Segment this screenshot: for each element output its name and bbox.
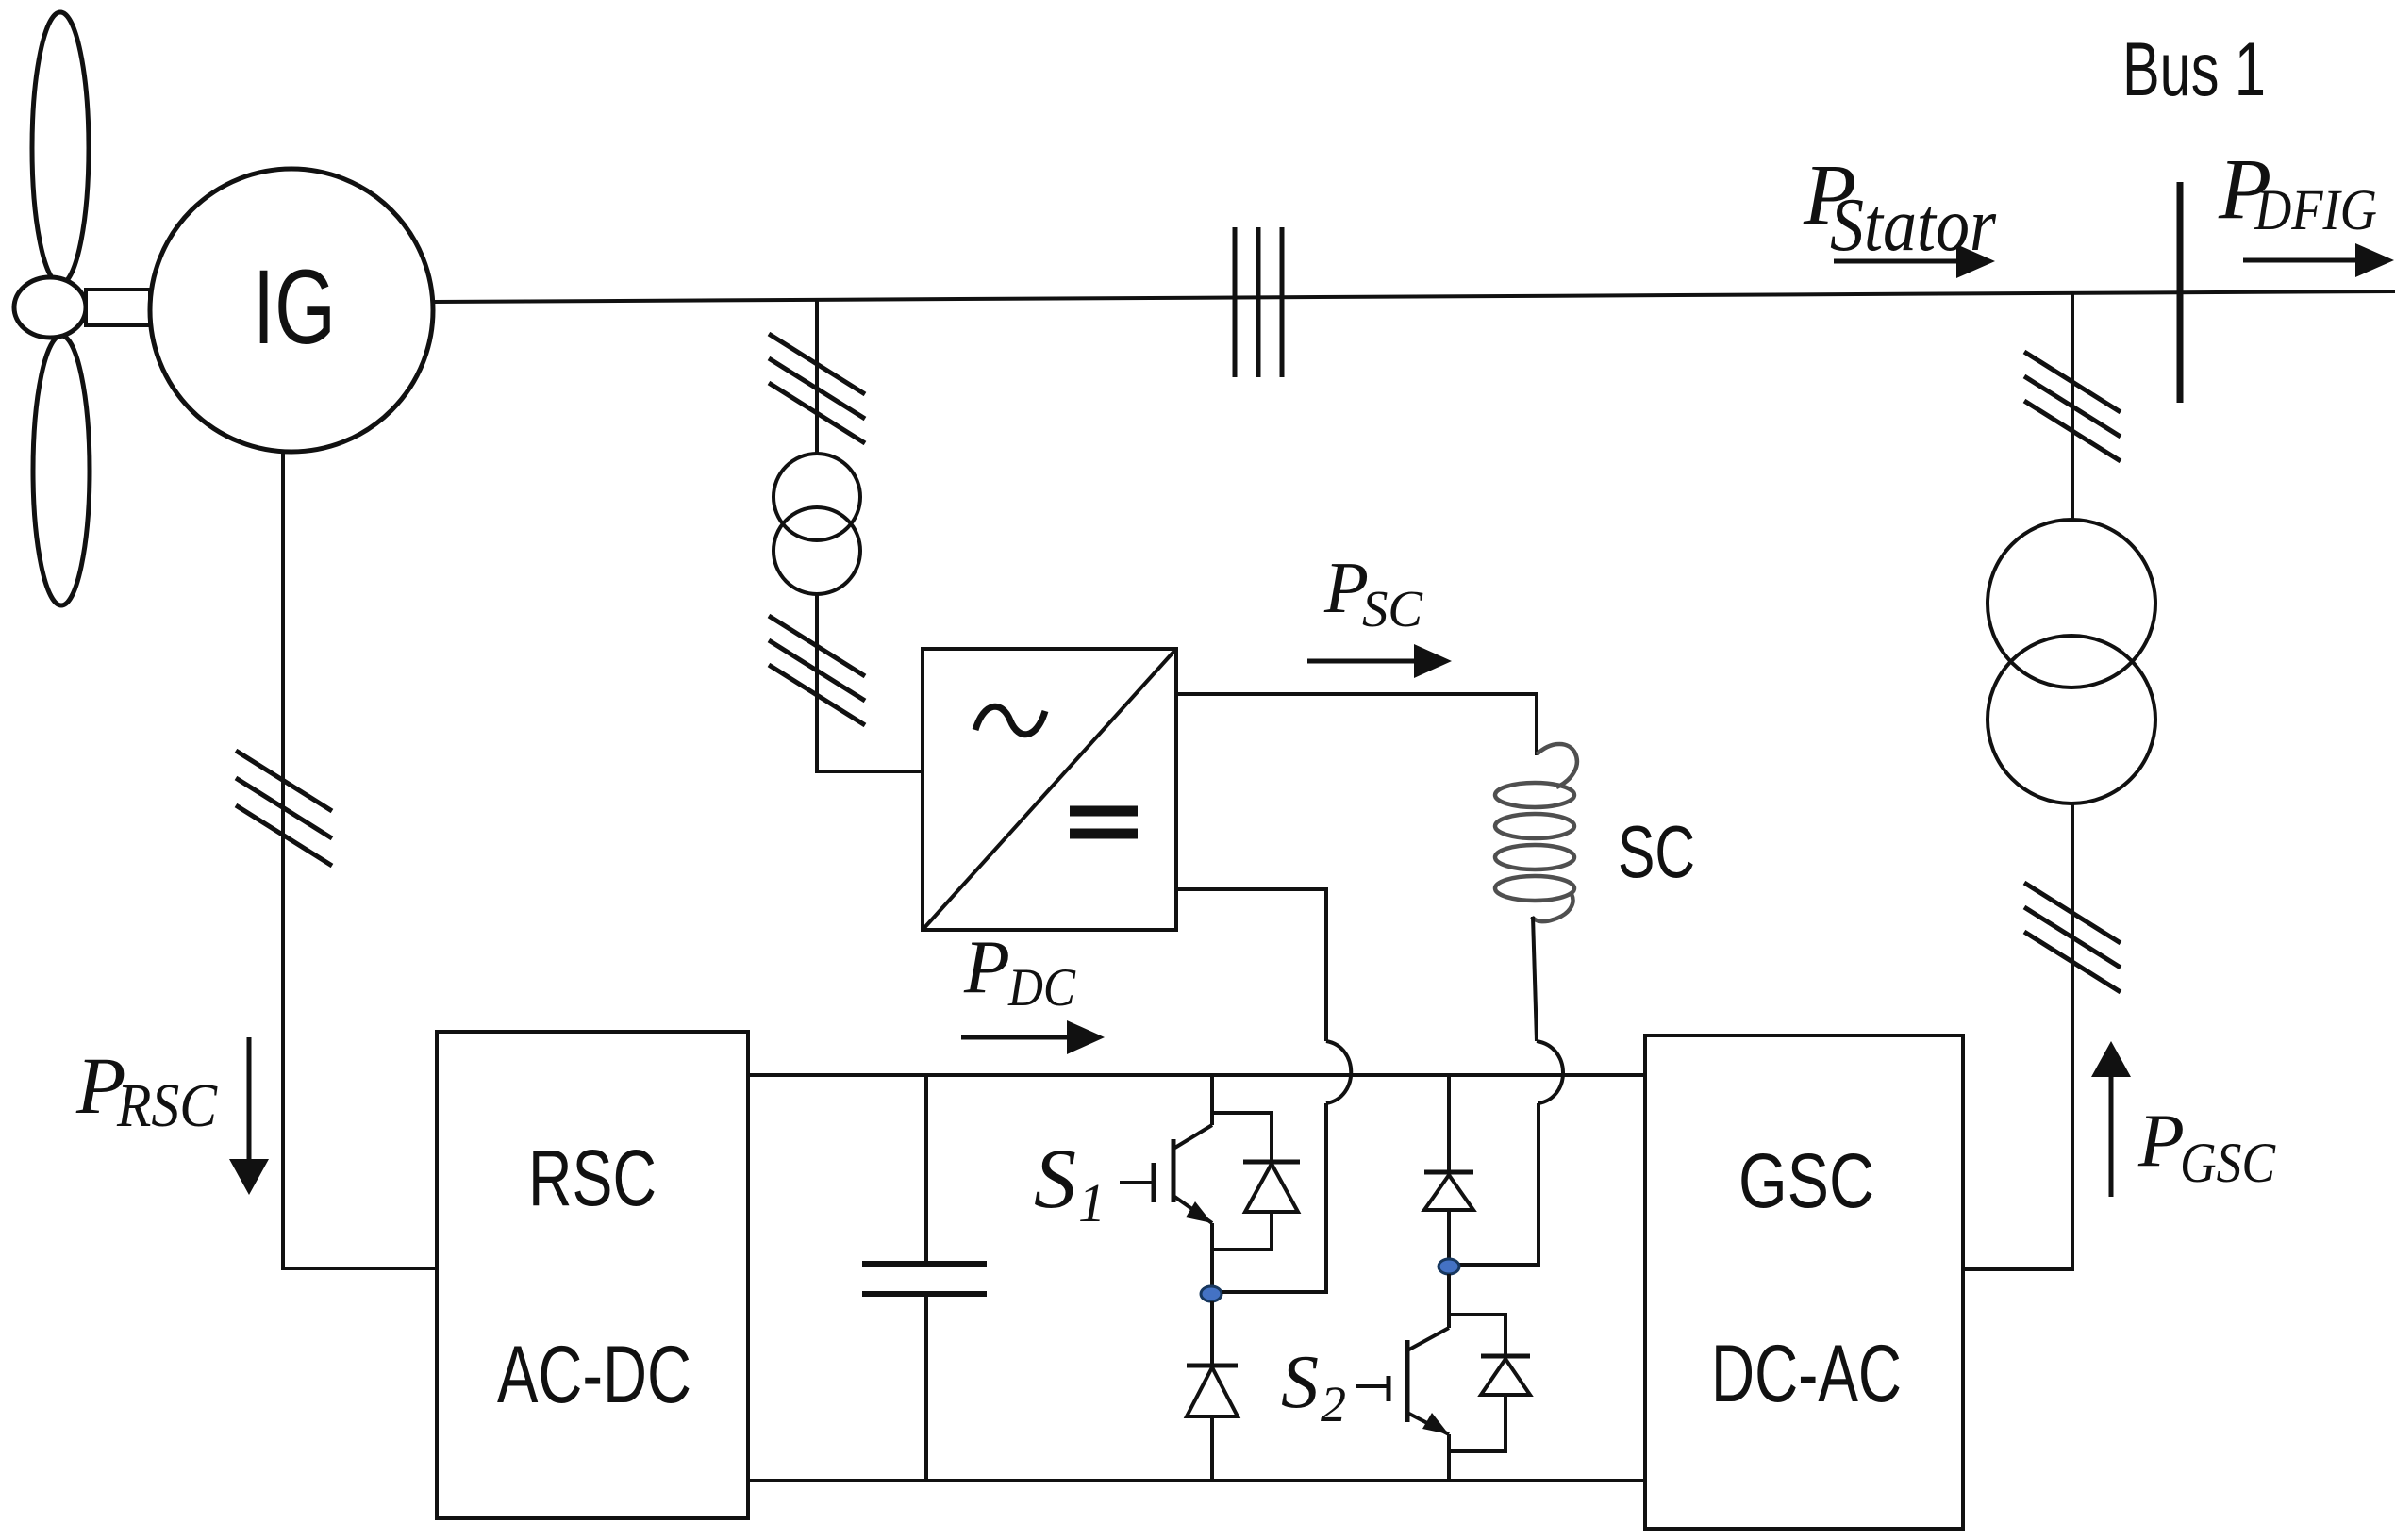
node B junction dot bbox=[1439, 1259, 1459, 1274]
IGBT S1 collector wire bbox=[1210, 1075, 1214, 1125]
diode D1 triangle bbox=[1245, 1164, 1298, 1212]
svg-text:DFIG: DFIG bbox=[2254, 179, 2377, 242]
IGBT S2 emitter arrowhead bbox=[1422, 1413, 1449, 1434]
svg-text:RSC: RSC bbox=[528, 1134, 657, 1222]
svg-text:1: 1 bbox=[1078, 1172, 1106, 1234]
converter U1 AC tilde bbox=[975, 706, 1045, 735]
svg-text:S: S bbox=[1034, 1133, 1076, 1226]
induction generator IG circle bbox=[150, 169, 433, 452]
svg-text:2: 2 bbox=[1321, 1376, 1346, 1432]
3-phase slashes above T2 bbox=[2024, 352, 2121, 461]
node A junction dot bbox=[1201, 1286, 1222, 1301]
diode D2 triangle bbox=[1424, 1175, 1473, 1210]
diode D3 cathode bar bbox=[1187, 1364, 1238, 1368]
IGBT S1 symbol bbox=[1172, 1139, 1176, 1202]
wire: T1 to converter U1 bbox=[817, 594, 923, 771]
diode D4 triangle bbox=[1481, 1359, 1530, 1395]
svg-text:Bus 1: Bus 1 bbox=[2122, 27, 2266, 112]
P_GSC flow arrow (up) bbox=[2109, 1077, 2114, 1197]
top DC rail bbox=[748, 1073, 1645, 1077]
P_Stator flow arrow bbox=[1834, 259, 1960, 264]
P_DFIG flow arrow bbox=[2243, 258, 2358, 263]
bottom DC rail bbox=[748, 1479, 1645, 1482]
converter U1 DC bars bbox=[1070, 811, 1138, 834]
RSC converter box bbox=[437, 1032, 748, 1518]
svg-text:AC-DC: AC-DC bbox=[497, 1330, 691, 1420]
IGBT S2 collector wire bbox=[1447, 1274, 1451, 1328]
3-phase slashes below T2 bbox=[2024, 883, 2121, 992]
svg-text:RSC: RSC bbox=[116, 1071, 218, 1140]
P_RSC flow arrow (down) bbox=[247, 1037, 252, 1160]
diode D4 cathode bar bbox=[1481, 1354, 1530, 1359]
IGBT S1 emitter wire to node A bbox=[1210, 1223, 1214, 1294]
wire: main stator line to Bus 1 bbox=[433, 291, 2395, 302]
3-phase ticks on stator line bbox=[1235, 227, 1282, 377]
diode D4 antiparallel with S2: wires bbox=[1449, 1315, 1505, 1451]
hop of SC wire over top DC rail bbox=[1537, 1041, 1563, 1103]
P_DC flow arrow bbox=[961, 1035, 1070, 1040]
IGBT S2 symbol bbox=[1405, 1340, 1410, 1422]
wire: hop up to converter U1 bbox=[1176, 889, 1326, 1041]
svg-text:GSC: GSC bbox=[1738, 1138, 1874, 1224]
GSC converter box bbox=[1645, 1035, 1963, 1529]
svg-text:DC: DC bbox=[1007, 958, 1076, 1018]
wire: GSC to transformer T2 bbox=[1963, 804, 2072, 1269]
svg-text:P: P bbox=[963, 926, 1010, 1009]
wire: branch from stator line down to transformer T1 bbox=[815, 299, 819, 454]
svg-text:Stator: Stator bbox=[1830, 184, 1997, 267]
turbine blade upper bbox=[32, 12, 89, 284]
transformer T2 circle upper bbox=[1988, 520, 2155, 687]
3-phase slashes below T1 bbox=[769, 616, 865, 725]
wire: converter U1 to SC coil bbox=[1176, 694, 1537, 755]
3-phase slashes above T1 bbox=[769, 334, 865, 443]
wire: IG bottom to RSC bbox=[283, 452, 437, 1268]
P_SC flow arrow bbox=[1307, 659, 1417, 664]
IGBT S2 emitter wire to bottom rail bbox=[1447, 1434, 1451, 1481]
transformer T1 circle upper bbox=[773, 454, 860, 540]
converter U1 diagonal bbox=[923, 649, 1176, 930]
transformer T2 circle lower bbox=[1988, 636, 2155, 803]
svg-text:IG: IG bbox=[253, 248, 336, 366]
svg-text:SC: SC bbox=[1362, 580, 1423, 638]
Bus 1 bar bbox=[2177, 182, 2184, 403]
dc-link capacitor C1 lead top bbox=[924, 1075, 928, 1481]
diode D2 upper wire of S2 leg bbox=[1447, 1075, 1451, 1259]
transformer T1 circle lower bbox=[773, 507, 860, 594]
wire: node A to converter U1 lower output bbox=[1222, 1103, 1326, 1292]
svg-text:GSC: GSC bbox=[2180, 1132, 2276, 1194]
dc-link capacitor C1 plates bbox=[862, 1264, 987, 1294]
hop of converter wire over top DC rail bbox=[1326, 1041, 1351, 1103]
svg-text:P: P bbox=[2137, 1100, 2185, 1183]
diode D1 antiparallel with S1: wires bbox=[1212, 1113, 1272, 1250]
diode D3 below node A: wires bbox=[1210, 1301, 1214, 1481]
diode D3 triangle bbox=[1187, 1367, 1238, 1416]
turbine hub bbox=[14, 277, 86, 338]
diode D1 cathode bar bbox=[1243, 1160, 1300, 1165]
wire: T2 up to stator line bbox=[2071, 292, 2074, 520]
3-phase slashes on rotor wire bbox=[236, 751, 332, 866]
svg-text:DC-AC: DC-AC bbox=[1711, 1329, 1902, 1419]
IGBT S1 emitter arrowhead bbox=[1186, 1201, 1212, 1223]
svg-text:SC: SC bbox=[1618, 810, 1695, 893]
turbine shaft bbox=[86, 290, 150, 325]
svg-text:S: S bbox=[1281, 1341, 1319, 1424]
turbine blade lower bbox=[33, 336, 90, 605]
supercapacitor coil SC bbox=[1495, 744, 1577, 921]
wire: hop to node B bbox=[1449, 1103, 1538, 1265]
wire: SC coil down over DC rail to node B bbox=[1533, 917, 1537, 1041]
converter U1 box bbox=[923, 649, 1176, 930]
diode D2 cathode bar bbox=[1424, 1170, 1473, 1175]
